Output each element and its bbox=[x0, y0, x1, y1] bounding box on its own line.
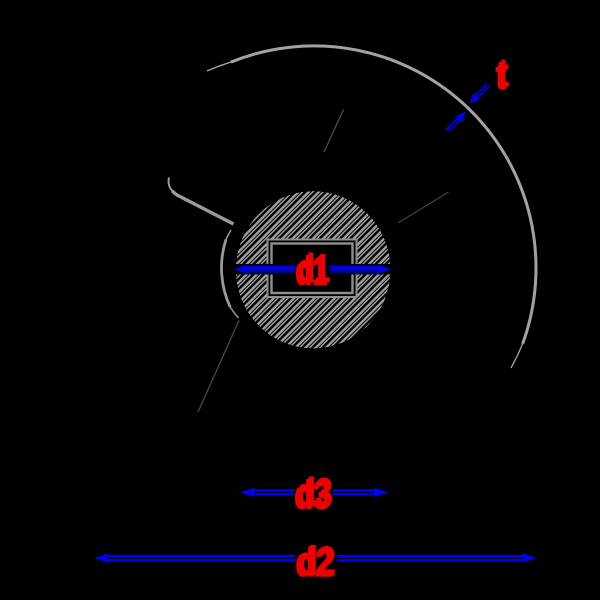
svg-text:t: t bbox=[498, 50, 508, 95]
svg-text:d3: d3 bbox=[297, 470, 333, 515]
svg-text:d1: d1 bbox=[298, 247, 330, 291]
svg-text:d2: d2 bbox=[298, 538, 336, 583]
